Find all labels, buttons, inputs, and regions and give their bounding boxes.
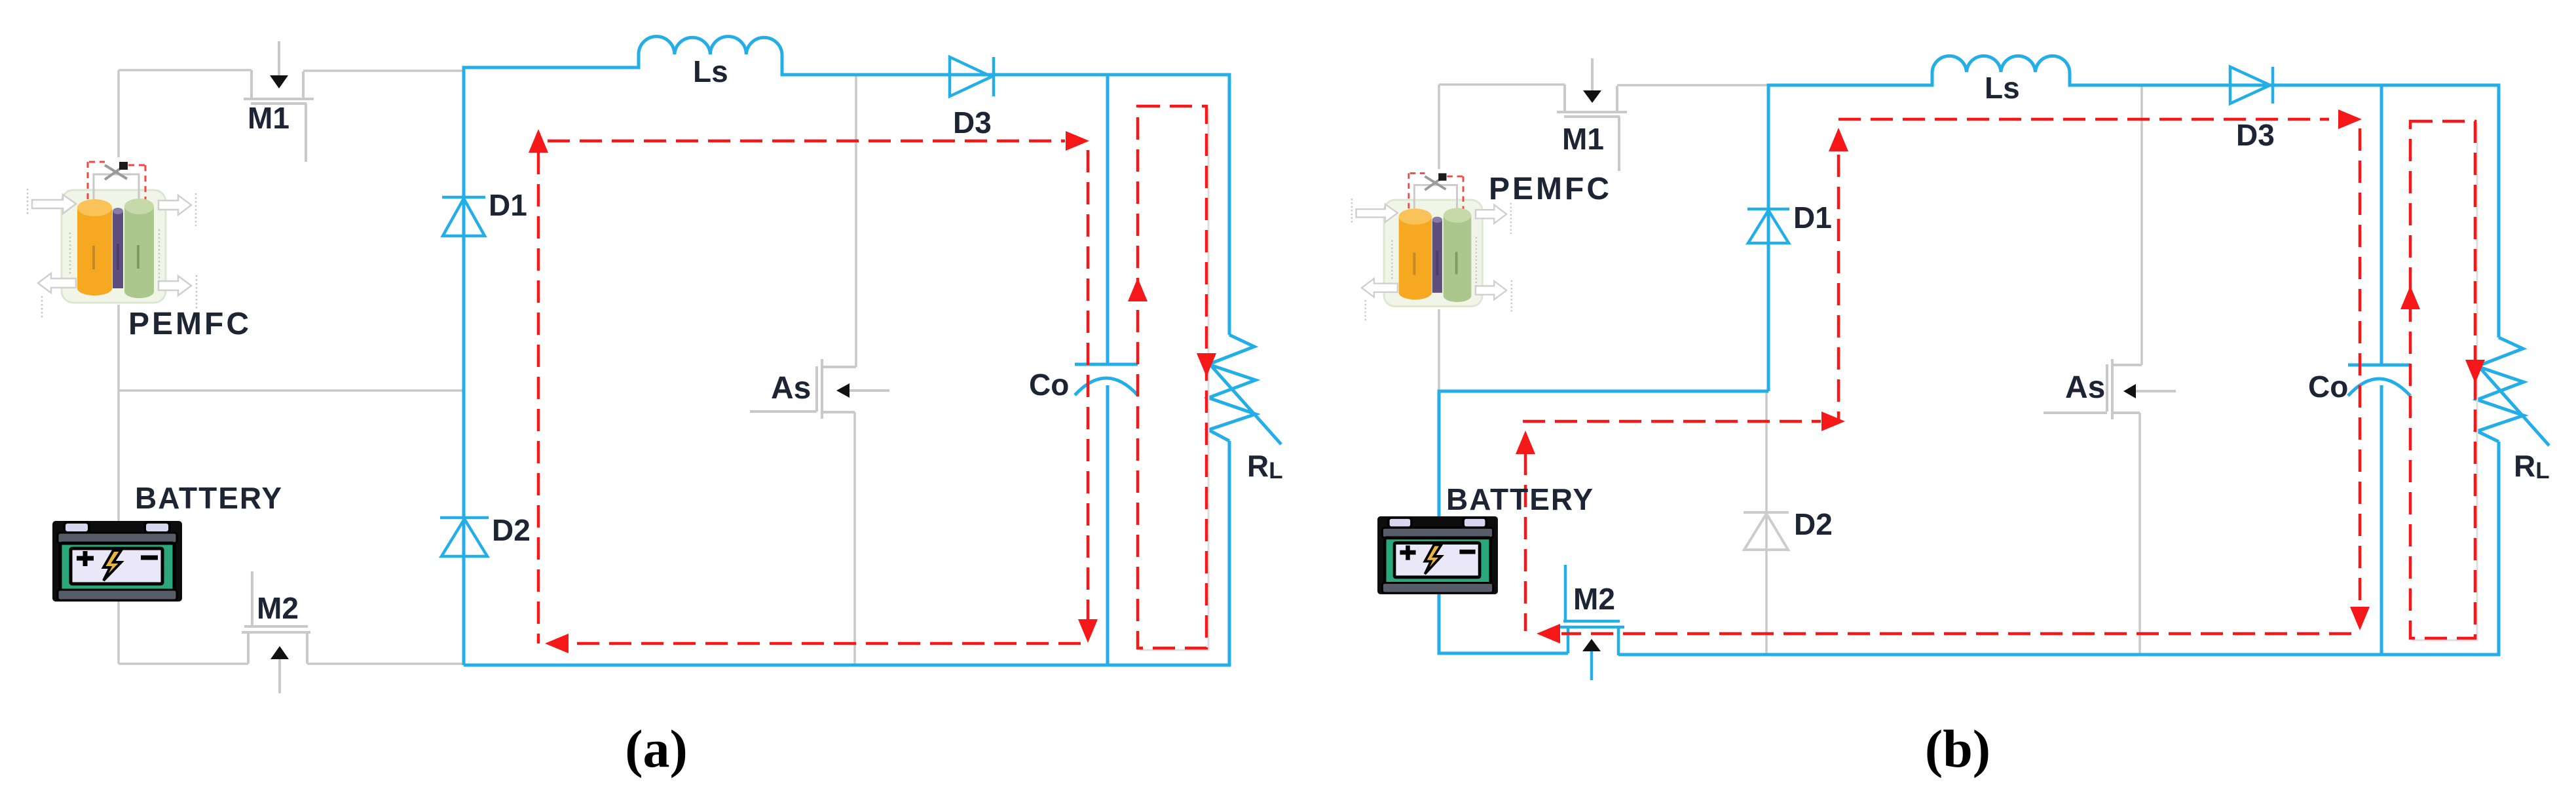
capacitor Co (b) — [2348, 365, 2410, 396]
current path: battery discharge red dashed loop (b) — [1523, 119, 2360, 634]
current path arrow up (a inner left) — [1128, 278, 1148, 301]
battery icon (b) — [1377, 516, 1498, 594]
transistor As — [750, 359, 889, 419]
label Co (a) — [1029, 368, 1069, 402]
caption (b) — [1925, 719, 1990, 778]
current path arrow down (a inner right) — [1197, 353, 1216, 377]
label M2 (b) — [1573, 582, 1615, 616]
diode D1 — [442, 197, 485, 236]
current path arrow up (b battery branch) — [1516, 431, 1535, 454]
current path arrow up (b D1 branch) — [1829, 128, 1848, 151]
svg-text:PEMFC: PEMFC — [128, 307, 252, 341]
svg-text:D3: D3 — [2236, 118, 2275, 152]
wire: bottom horizontal gray M2 to D2 node — [307, 662, 464, 665]
transistor As body arrow (b) — [2123, 384, 2136, 398]
current path arrow right (a outer top) — [1066, 131, 1089, 151]
wire: top horizontal gray from PEMFC to M1 — [119, 69, 252, 71]
transistor M2 — [242, 571, 310, 693]
resistor RL (b) — [2477, 337, 2549, 446]
label PEMFC (a) — [128, 307, 252, 341]
label Ls (b) — [1985, 71, 2020, 105]
svg-text:D2: D2 — [492, 513, 531, 547]
current path: inner red dashed loop around Co and RL (a) — [1138, 106, 1206, 648]
label D3 (a) — [953, 105, 992, 140]
inductor Ls (b) — [1932, 56, 2070, 72]
wire: As source branch vertical gray down to bottom (b) — [2138, 413, 2141, 655]
svg-text:M2: M2 — [257, 591, 299, 625]
svg-text:Ls: Ls — [1985, 71, 2020, 105]
transistor M1 — [244, 41, 314, 162]
label D1 (b) — [1793, 201, 1832, 235]
transistor M2 (b, cyan) — [1560, 565, 1624, 680]
svg-text:(a): (a) — [625, 719, 688, 778]
label As (b) — [2065, 370, 2105, 405]
current path outer loop gray underlay (a) — [1140, 108, 1208, 650]
svg-text:M2: M2 — [1573, 582, 1615, 616]
transistor M1 body arrow (b) — [1583, 90, 1601, 103]
svg-text:Ls: Ls — [693, 54, 728, 88]
label M1 (a) — [248, 101, 289, 135]
inductor Ls — [639, 37, 782, 54]
wire: As source branch vertical gray down to bottom — [853, 412, 856, 664]
svg-text:D2: D2 — [1794, 507, 1833, 541]
current path arrow right (b top) — [2338, 109, 2362, 129]
resistor RL — [1208, 335, 1281, 444]
current path inner loop gray underlay (b) — [2412, 123, 2477, 640]
current path arrow left (b bottom) — [1537, 624, 1560, 643]
fuel cell PEMFC icon (a) — [28, 162, 196, 318]
svg-text:As: As — [2065, 370, 2105, 405]
label D1 (a) — [489, 188, 527, 222]
capacitor Co — [1075, 364, 1138, 395]
wire: main cyan loop (boost converter outline) — [464, 54, 1229, 665]
svg-text:RL: RL — [1247, 449, 1283, 484]
wire: top horizontal gray to M1 (b) — [1439, 83, 1565, 86]
svg-text:BATTERY: BATTERY — [1446, 482, 1594, 516]
label M2 (a) — [257, 591, 299, 625]
wire: As drain branch vertical gray (b) — [2140, 85, 2143, 365]
svg-text:M1: M1 — [1562, 122, 1604, 156]
label BATTERY (b) — [1446, 482, 1594, 516]
current path arrow right (b mid horizontal) — [1821, 412, 1845, 431]
label M1 (b) — [1562, 122, 1604, 156]
label D3 (b) — [2236, 118, 2275, 152]
svg-text:D3: D3 — [953, 105, 992, 140]
wire: top horizontal gray from M1 to node — [303, 69, 464, 72]
label D2 (a) — [492, 513, 531, 547]
current path arrow up (b inner left) — [2400, 286, 2420, 309]
svg-text:Co: Co — [1029, 368, 1069, 402]
wire: D2 branch vertical gray (b) — [1765, 391, 1768, 655]
svg-text:Co: Co — [2308, 370, 2348, 404]
wire: left vertical (PEMFC/battery branch, gray) — [117, 70, 120, 664]
transistor M2 body arrow (b) — [1582, 639, 1601, 651]
transistor As body arrow — [836, 383, 849, 398]
wire: main cyan path (b): D1 branch, top, right edge, bottom — [1618, 72, 2499, 655]
svg-text:M1: M1 — [248, 101, 289, 135]
wire: bottom horizontal gray battery to M2 — [119, 662, 248, 665]
battery icon (a) — [52, 521, 182, 602]
transistor As (b) — [2044, 359, 2176, 419]
diode D1 (b) — [1747, 209, 1789, 243]
current path: outer red dashed loop (a) — [538, 141, 1088, 643]
wire: output capacitor branch cyan vertical (b) — [2380, 85, 2383, 655]
svg-text:BATTERY: BATTERY — [135, 481, 283, 515]
svg-text:PEMFC: PEMFC — [1489, 172, 1612, 206]
current path arrow down (b right) — [2350, 607, 2370, 630]
current path: inner red dashed loop around Co and RL (b) — [2410, 121, 2475, 638]
current path arrow up (a outer left) — [529, 129, 548, 153]
diode D2 — [440, 518, 489, 556]
current path arrow left (a outer bottom) — [545, 634, 569, 653]
wire: As drain branch vertical gray — [855, 75, 857, 367]
label Co (b) — [2308, 370, 2348, 404]
label RL (a) — [1247, 449, 1283, 484]
svg-text:D1: D1 — [1793, 201, 1832, 235]
current path arrow down (a outer right) — [1078, 619, 1098, 643]
transistor M2 body arrow — [271, 646, 289, 659]
svg-text:As: As — [771, 371, 811, 406]
svg-text:D1: D1 — [489, 188, 527, 222]
transistor M1 body arrow — [270, 75, 288, 88]
wire: middle horizontal gray (PEMFC/battery midpoint to D1-D2 node) — [119, 389, 464, 392]
label BATTERY (a) — [135, 481, 283, 515]
wire: top horizontal gray from M1 to D1 node (b) — [1617, 84, 1768, 86]
svg-text:(b): (b) — [1925, 719, 1990, 778]
diode D3 — [950, 57, 994, 96]
wire: output capacitor branch cyan vertical — [1106, 75, 1110, 665]
current path arrow down (b inner right) — [2465, 360, 2485, 383]
label D2 (b) — [1794, 507, 1833, 541]
wire: battery branch cyan (b): mid wire, left vertical, bottom left — [1439, 391, 1768, 653]
label RL (b) — [2514, 449, 2550, 484]
label Ls (a) — [693, 54, 728, 88]
label As (a) — [771, 371, 811, 406]
label PEMFC (b) — [1489, 172, 1612, 206]
caption (a) — [625, 719, 688, 778]
transistor M1 (b) — [1557, 58, 1627, 171]
diode D3 (b) — [2230, 67, 2273, 104]
diode D2 (b, gray) — [1744, 512, 1789, 550]
wire: left vertical gray upper part (b) — [1438, 85, 1440, 391]
svg-text:RL: RL — [2514, 449, 2550, 484]
fuel cell PEMFC icon (b) — [1352, 173, 1512, 321]
